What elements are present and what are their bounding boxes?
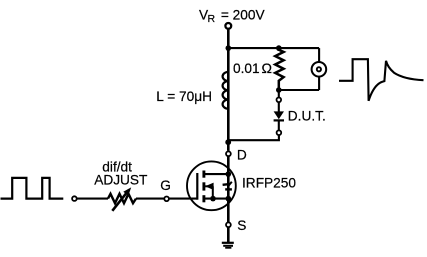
svg-text:L = 70μH: L = 70μH (156, 89, 212, 104)
svg-text:IRFP250: IRFP250 (242, 175, 296, 190)
svg-text:R: R (208, 13, 216, 25)
svg-text:S: S (237, 218, 246, 233)
svg-text:G: G (160, 178, 171, 193)
svg-text:D: D (237, 148, 247, 163)
svg-text:Ω: Ω (262, 61, 273, 76)
svg-text:D.U.T.: D.U.T. (288, 109, 326, 124)
svg-text:ADJUST: ADJUST (94, 172, 148, 187)
svg-text:0.01: 0.01 (233, 61, 260, 76)
svg-text:= 200V: = 200V (221, 7, 266, 22)
